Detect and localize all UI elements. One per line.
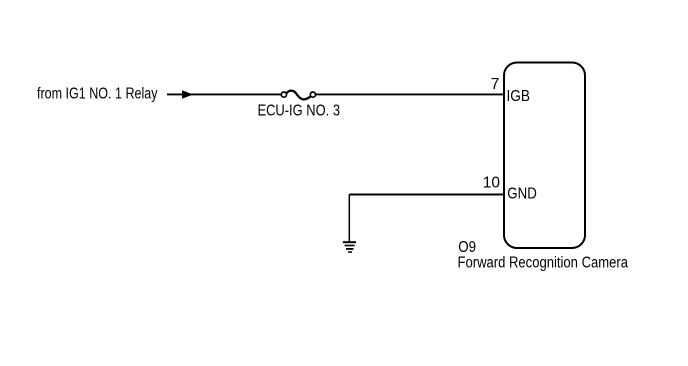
svg-text:ECU-IG NO. 3: ECU-IG NO. 3 — [258, 103, 341, 120]
svg-text:Forward Recognition Camera: Forward Recognition Camera — [458, 254, 629, 271]
svg-text:GND: GND — [507, 186, 537, 203]
svg-text:from IG1 NO. 1 Relay: from IG1 NO. 1 Relay — [37, 86, 158, 103]
svg-text:7: 7 — [491, 76, 500, 93]
svg-text:IGB: IGB — [507, 88, 531, 105]
svg-text:10: 10 — [483, 175, 501, 192]
